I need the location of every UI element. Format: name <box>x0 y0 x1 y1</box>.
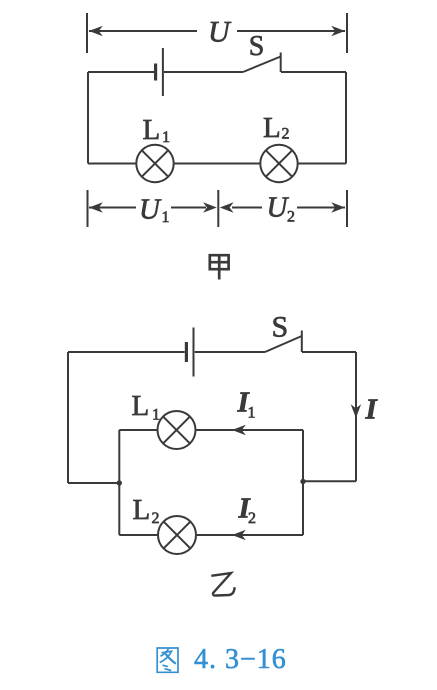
svg-text:L: L <box>143 114 161 146</box>
svg-text:L: L <box>132 390 150 422</box>
svg-text:4. 3−16: 4. 3−16 <box>194 644 287 675</box>
svg-text:S: S <box>272 311 289 344</box>
svg-text:2: 2 <box>282 126 290 143</box>
svg-text:L: L <box>263 112 281 144</box>
svg-text:1: 1 <box>162 209 170 226</box>
svg-text:L: L <box>133 494 151 526</box>
svg-text:1: 1 <box>248 405 256 422</box>
svg-text:S: S <box>249 31 265 62</box>
svg-text:2: 2 <box>248 510 256 527</box>
svg-text:2: 2 <box>287 209 295 226</box>
svg-text:I: I <box>365 394 379 426</box>
svg-text:1: 1 <box>152 407 160 424</box>
svg-text:2: 2 <box>152 510 160 527</box>
svg-text:U: U <box>208 16 232 49</box>
svg-text:1: 1 <box>162 129 170 146</box>
svg-text:U: U <box>139 194 162 226</box>
